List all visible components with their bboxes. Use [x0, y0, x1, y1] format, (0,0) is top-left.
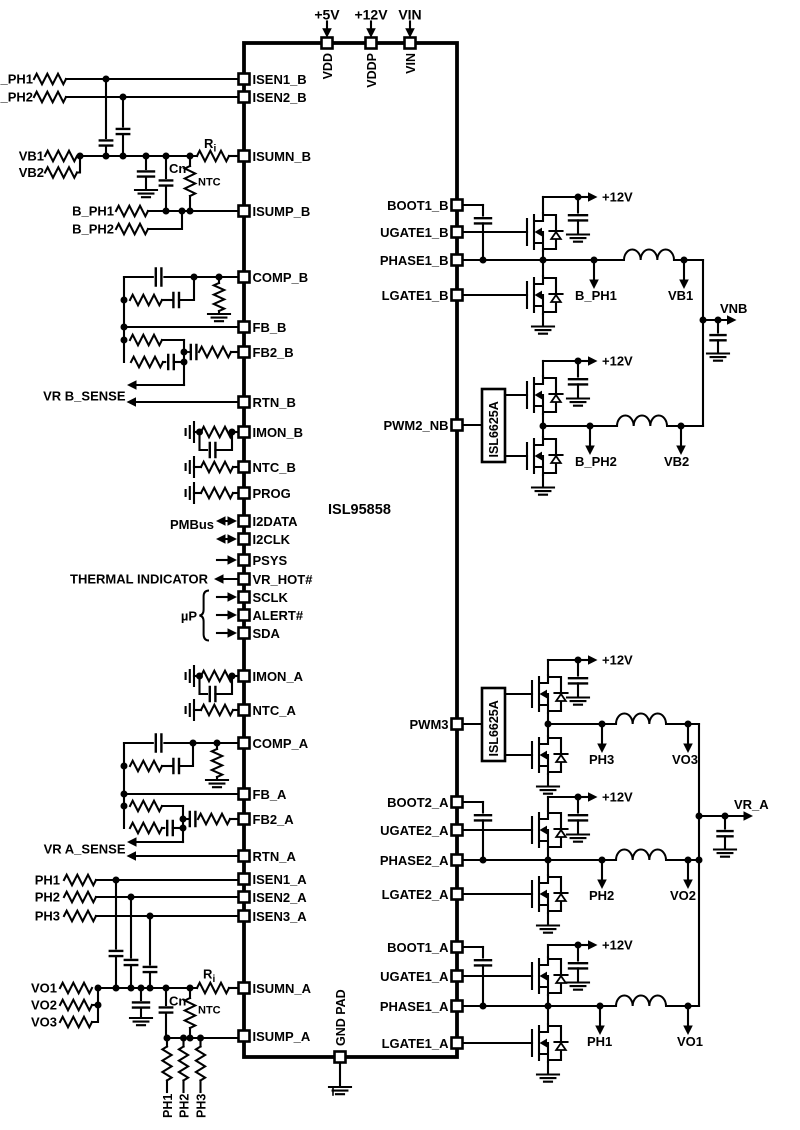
pin IMON_B — [239, 427, 250, 438]
wire ISUMP_B node — [148, 210, 238, 212]
ground symbol lower MOSFET phase2 A — [537, 926, 559, 933]
wire VNB cap lower — [717, 340, 719, 352]
junction PH2 branch — [599, 857, 606, 864]
junction PH1 branch — [597, 1003, 604, 1010]
wire decoupling cap upper — [577, 945, 579, 961]
wire +12V rail — [548, 659, 578, 661]
resistor FB2_A series — [198, 814, 230, 824]
svg-text:GND PAD: GND PAD — [334, 989, 348, 1046]
junction VO3 branch — [685, 721, 692, 728]
wire bootstrap lower — [482, 820, 484, 860]
svg-text:NTC_A: NTC_A — [253, 703, 297, 718]
svg-text:VR B_SENSE: VR B_SENSE — [43, 389, 126, 404]
svg-text:NTC: NTC — [198, 177, 221, 189]
arrowhead into VDDP — [366, 28, 376, 38]
ground symbol VNB cap — [707, 354, 729, 361]
wire inductor to VR_A bus — [668, 859, 699, 861]
transistor upper MOSFET phase2 B — [527, 376, 563, 414]
junction VB1 branch — [681, 257, 688, 264]
pin SCLK — [239, 592, 250, 603]
arrowhead VB2 — [676, 446, 686, 456]
junction IMON_B left — [196, 429, 203, 436]
svg-text:SCLK: SCLK — [253, 590, 289, 605]
junction +12V rail — [575, 194, 582, 201]
arrow PSYS input — [217, 559, 230, 561]
wire +12V rail — [543, 360, 578, 362]
ground symbol GND PAD — [329, 1087, 351, 1094]
wire decoupling cap lower — [577, 820, 579, 833]
wire drain to phase node — [547, 860, 549, 875]
wire B_PH1 branch — [593, 260, 595, 280]
wire B_PH2 join — [148, 211, 182, 229]
resistor ISUMP_A PH3 — [196, 1047, 205, 1081]
junction IMON_A left — [196, 673, 203, 680]
wire drain to phase node — [542, 260, 544, 276]
wire COMP_B row right — [164, 276, 238, 278]
pin RTN_B — [239, 397, 250, 408]
wire RTN_A sense — [135, 855, 238, 857]
svg-text:PHASE1_B: PHASE1_B — [380, 253, 449, 268]
svg-text:_PH1: _PH1 — [0, 72, 33, 87]
svg-text:R: R — [204, 136, 214, 151]
wire drain to +12V rail — [547, 797, 549, 811]
pin VDD — [322, 38, 333, 49]
ground symbol COMP_A — [206, 780, 228, 787]
wire IMON_B to pin — [233, 431, 238, 433]
wire PH1 cap branch lower — [115, 956, 117, 988]
junction phase3 A node — [545, 721, 552, 728]
wire source to phase node — [547, 995, 549, 1006]
pin ISEN2_A — [239, 892, 250, 903]
wire IMON_B cap left — [200, 432, 208, 450]
wire driver UGATE (B2) — [505, 394, 527, 396]
svg-text:+12V: +12V — [354, 7, 388, 23]
double arrow I2CLK — [216, 534, 237, 544]
wire decoupling cap lower — [577, 384, 579, 397]
junction on ISUMN_A node — [147, 985, 154, 992]
brace uP group — [199, 591, 209, 641]
decoupling capacitor +12V — [569, 215, 587, 220]
pin PROG — [239, 488, 250, 499]
wire cap to ground lower (A) — [140, 1008, 142, 1016]
junction on ISUMN_B node — [187, 153, 194, 160]
svg-text:PH1: PH1 — [35, 873, 60, 888]
svg-text:ISEN2_B: ISEN2_B — [253, 90, 307, 105]
svg-text:BOOT1_B: BOOT1_B — [387, 198, 448, 213]
wire PH3 to ISEN3_A — [96, 915, 238, 917]
pin PHASE2_A — [452, 855, 463, 866]
svg-text:PH3: PH3 — [195, 1094, 209, 1118]
wire IMON_A cap right — [215, 676, 232, 694]
wire ISUMN_A summing node — [98, 987, 197, 989]
svg-text:LGATE1_B: LGATE1_B — [382, 288, 449, 303]
wire IMON_A to pin — [233, 675, 238, 677]
transistor lower MOSFET phase1 B — [527, 276, 563, 314]
pin FB_A — [239, 789, 250, 800]
wire UGATE2_A to gate — [463, 829, 532, 831]
capacitor compensation RC (A) — [173, 759, 179, 773]
wire B_PH2 branch — [589, 426, 591, 446]
ground symbol +12V decoupling — [567, 698, 589, 705]
wire remote sense branch (B) — [136, 384, 184, 386]
junction VNB cap — [715, 317, 722, 324]
wire NTC_A to pin — [233, 709, 238, 711]
wire PHASE2_A node — [463, 859, 616, 861]
svg-text:ISUMP_A: ISUMP_A — [253, 1029, 311, 1044]
junction droop lower row (B) — [181, 359, 188, 366]
ground symbol VR_A cap — [714, 850, 736, 857]
pin GND PAD — [335, 1052, 346, 1063]
wire cap to ground upper (B) — [145, 156, 147, 169]
arrowhead RTN_A sense — [127, 851, 137, 861]
pin SDA — [239, 628, 250, 639]
inductor L phase3 A — [616, 714, 666, 725]
svg-text:THERMAL INDICATOR: THERMAL INDICATOR — [70, 572, 209, 587]
junction FB2_A branch — [180, 816, 187, 823]
wire resistor PH1 lead — [166, 1081, 168, 1093]
wire decoupling cap upper — [577, 197, 579, 213]
wire drain to phase node — [547, 1006, 549, 1024]
resistor COMP_A to ground — [212, 749, 222, 777]
svg-text:VR_A: VR_A — [734, 797, 769, 812]
ground symbol NTC_B — [186, 457, 194, 477]
wire +12V rail — [543, 196, 578, 198]
pin LGATE1_A — [452, 1038, 463, 1049]
resistor VO1 sense — [60, 983, 92, 993]
junction PH3 branch — [599, 721, 606, 728]
capacitor COMP_B feedback — [156, 269, 162, 286]
junction phase1 A node — [545, 1003, 552, 1010]
junction B_PH2 at ISUMP_B — [179, 208, 186, 215]
pin BOOT1_A — [452, 942, 463, 953]
svg-text:PH2: PH2 — [178, 1094, 192, 1118]
wire source to ground — [547, 774, 549, 785]
junction rail RC row (A) — [121, 763, 128, 770]
wire source to ground — [547, 1062, 549, 1073]
wire resistor PH2 lead — [182, 1081, 184, 1093]
junction on ISUMN_A node — [113, 985, 120, 992]
wire source to ground — [547, 913, 549, 924]
wire source to phase node — [547, 849, 549, 860]
svg-text:FB2_B: FB2_B — [253, 345, 294, 360]
junction R PH3 at ISUMP_A — [197, 1035, 204, 1042]
junction VB2 branch — [678, 423, 685, 430]
capacitor Cn (A) — [160, 1007, 172, 1012]
wire VB2 branch — [680, 426, 682, 446]
junction COMP_B resistor branch — [216, 274, 223, 281]
svg-text:VO2: VO2 — [670, 888, 696, 903]
junction COMP_A RC branch — [190, 740, 197, 747]
wire PH2 cap branch lower — [130, 965, 132, 988]
svg-text:ISL95858: ISL95858 — [328, 502, 391, 518]
svg-text:+12V: +12V — [602, 653, 633, 668]
wire PH2 to ISEN2_A — [96, 896, 238, 898]
svg-text:B_PH2: B_PH2 — [575, 454, 617, 469]
junction _PH2 node — [120, 94, 127, 101]
wire _PH1 to ISEN1_B — [66, 78, 238, 80]
svg-text:PHASE2_A: PHASE2_A — [380, 853, 449, 868]
wire PWM3 to driver — [463, 723, 482, 725]
svg-text:NTC_B: NTC_B — [253, 460, 296, 475]
junction bootstrap at phase — [480, 1003, 487, 1010]
capacitor ISUMN_A to ground — [133, 1002, 149, 1007]
ground symbol +12V decoupling — [567, 983, 589, 990]
junction COMP_A resistor branch — [214, 740, 221, 747]
wire NTC_B to pin — [233, 466, 238, 468]
wire NTC upper (B) — [189, 156, 191, 166]
wire decoupling cap lower — [577, 220, 579, 233]
arrow VR_HOT# output — [222, 578, 237, 580]
ground symbol lower MOSFET phase2 B — [532, 488, 554, 495]
pin LGATE1_B — [452, 290, 463, 301]
ground symbol +12V decoupling — [567, 399, 589, 406]
wire LGATE1_B to gate — [463, 294, 527, 296]
pin BOOT2_A — [452, 797, 463, 808]
wire cap to ground upper (A) — [140, 988, 142, 1000]
capacitor ISEN2_A — [125, 960, 137, 965]
wire bootstrap upper — [482, 205, 484, 216]
svg-text:ISEN2_A: ISEN2_A — [253, 890, 308, 905]
wire decoupling cap upper — [577, 660, 579, 676]
resistor FB2_B series — [199, 347, 231, 357]
resistor IMON_B — [201, 427, 233, 437]
wire COMP_A row right — [164, 742, 238, 744]
wire +12V rail — [548, 796, 578, 798]
arrowhead +12V — [588, 655, 598, 665]
svg-text:LGATE2_A: LGATE2_A — [382, 887, 450, 902]
wire FB_A row — [124, 793, 238, 795]
arrowhead VO3 — [683, 744, 693, 754]
svg-text:IMON_A: IMON_A — [253, 669, 304, 684]
wire inductor to VR_A bus — [668, 723, 699, 725]
ground symbol lower MOSFET phase1 B — [532, 327, 554, 334]
svg-text:COMP_A: COMP_A — [253, 736, 309, 751]
svg-text:FB_A: FB_A — [253, 787, 288, 802]
wire VB1 branch — [683, 260, 685, 280]
resistor ISUMP_B from B_PH1 — [116, 206, 148, 216]
wire FB2_B to pin — [231, 351, 238, 353]
wire IMON_A cap left — [200, 676, 208, 694]
resistor ISEN2_A filter — [64, 892, 96, 902]
transistor upper MOSFET phase2 A — [532, 811, 568, 849]
junction on ISUMN_B node — [120, 153, 127, 160]
pin UGATE1_A — [452, 971, 463, 982]
wire RTN_B sense — [135, 401, 238, 403]
wire ISUMP_A to resistor PH1 — [166, 1038, 168, 1047]
junction VB1/VB2 — [77, 153, 84, 160]
svg-text:+12V: +12V — [602, 190, 633, 205]
wire Cn lower (B) — [165, 186, 167, 211]
svg-text:PWM2_NB: PWM2_NB — [383, 418, 448, 433]
svg-text:VB1: VB1 — [19, 149, 44, 164]
wire PH1 branch — [599, 1006, 601, 1026]
resistor VO2 sense — [60, 1000, 92, 1010]
wire VO1 branch — [687, 1006, 689, 1026]
junction NTC at ISUMP_B — [187, 208, 194, 215]
wire left rail compensation (A) — [123, 743, 125, 828]
resistor compensation RC (A) — [130, 761, 162, 771]
svg-text:B_PH1: B_PH1 — [72, 204, 114, 219]
pin ISEN1_A — [239, 874, 250, 885]
arrowhead into VIN — [405, 28, 415, 38]
pin PHASE1_A — [452, 1001, 463, 1012]
wire FB_B row — [124, 326, 238, 328]
wire resistor PH3 lead — [199, 1081, 201, 1093]
wire Cn upper (A) — [165, 988, 167, 1005]
arrowhead VNB — [727, 315, 737, 325]
pin VIN — [405, 38, 416, 49]
resistor droop lower (B) — [131, 357, 163, 367]
junction VO1 branch — [685, 1003, 692, 1010]
resistor Ri (B) — [197, 151, 229, 161]
svg-text:PH3: PH3 — [35, 909, 60, 924]
wire droop lower to vertical (A) — [173, 827, 183, 829]
arrowhead PH2 — [597, 880, 607, 890]
capacitor FB2_A series — [190, 812, 196, 826]
decoupling capacitor +12V — [569, 963, 587, 968]
wire ISUMP_A node — [166, 1037, 238, 1039]
wire UGATE1_B to gate — [463, 231, 527, 233]
svg-text:VIN: VIN — [404, 53, 418, 74]
wire NTC upper (A) — [189, 988, 191, 998]
svg-text:ALERT#: ALERT# — [253, 608, 304, 623]
wire to vertical resistor (B) — [218, 277, 220, 283]
pin ISEN2_B — [239, 92, 250, 103]
arrowhead PH1 — [595, 1026, 605, 1036]
svg-text:RTN_A: RTN_A — [253, 849, 297, 864]
wire VO2/VO3 join — [92, 988, 98, 1022]
junction droop lower row (A) — [180, 825, 187, 832]
wire source to ground — [542, 314, 544, 325]
wire drain to +12V rail — [542, 197, 544, 213]
pin FB2_A — [239, 814, 250, 825]
resistor NTC_B network — [201, 462, 233, 472]
wire PWM2_NB to driver — [463, 424, 482, 426]
pin VR_HOT# — [239, 574, 250, 585]
wire droop upper row (B) — [162, 339, 184, 341]
wire source to ground — [542, 475, 544, 486]
wire driver UGATE (A3) — [505, 693, 532, 695]
pin I2DATA — [239, 516, 250, 527]
pin ISEN3_A — [239, 911, 250, 922]
pin COMP_B — [239, 272, 250, 283]
capacitor ISUMN_B to ground — [138, 171, 154, 176]
svg-text:i: i — [214, 144, 217, 155]
ground symbol NTC_A — [186, 700, 194, 720]
svg-text:+12V: +12V — [602, 354, 633, 369]
junction phase1 B node — [540, 257, 547, 264]
svg-text:UGATE1_B: UGATE1_B — [380, 225, 448, 240]
wire VNB cap upper — [717, 320, 719, 333]
wire droop vertical (A) — [182, 806, 184, 842]
svg-text:VIN: VIN — [398, 7, 421, 23]
svg-text:VR_HOT#: VR_HOT# — [253, 572, 314, 587]
wire NTC lower (B) — [189, 196, 191, 211]
wire source to phase node — [542, 251, 544, 260]
junction B_PH1 branch — [591, 257, 598, 264]
resistor VB1 sense — [45, 151, 77, 161]
pin FB_B — [239, 322, 250, 333]
wire VNB node — [703, 319, 727, 321]
wire _PH2 cap branch upper — [122, 97, 124, 127]
junction VO2 — [95, 1002, 102, 1009]
wire COMP_B row left — [124, 276, 153, 278]
junction +12V rail — [575, 942, 582, 949]
decoupling capacitor +12V — [569, 678, 587, 683]
svg-text:COMP_B: COMP_B — [253, 270, 309, 285]
resistor COMP_B to ground — [214, 283, 224, 311]
wire BOOT pin — [463, 204, 483, 206]
pin PWM3 — [452, 719, 463, 730]
wire bootstrap upper — [482, 802, 484, 813]
NTC thermistor (A) — [185, 998, 195, 1028]
inductor L phase2 B — [617, 416, 667, 427]
arrowhead VB1 — [679, 280, 689, 290]
arrowhead +12V — [588, 356, 598, 366]
NTC thermistor (B) — [185, 166, 195, 196]
transistor lower MOSFET phase1 A — [532, 1024, 568, 1062]
pin ISUMP_B — [239, 206, 250, 217]
wire drain to phase node — [542, 426, 544, 437]
wire RC row (B) — [162, 299, 173, 301]
wire Ri to ISUMN_A pin — [229, 987, 238, 989]
wire drain to +12V rail — [547, 660, 549, 675]
capacitor compensation RC (B) — [173, 293, 179, 307]
junction +12V rail — [575, 358, 582, 365]
wire GND PAD to ground — [339, 1063, 341, 1086]
svg-text:PROG: PROG — [253, 486, 291, 501]
wire source to phase node — [542, 414, 544, 426]
resistor droop upper (B) — [130, 335, 162, 345]
pin FB2_B — [239, 347, 250, 358]
arrowhead PH3 — [597, 744, 607, 754]
inductor L phase1 A — [616, 996, 666, 1007]
pin BOOT1_B — [452, 200, 463, 211]
wire Cn upper (B) — [165, 156, 167, 178]
wire COMP_A row left — [124, 742, 153, 744]
wire source to phase node — [547, 713, 549, 724]
svg-text:PHASE1_A: PHASE1_A — [380, 999, 449, 1014]
wire +12V supply — [370, 22, 372, 30]
junction rail FB_A row — [121, 791, 128, 798]
wire cap to ground lower (B) — [145, 177, 147, 188]
wire drain to phase node — [547, 724, 549, 736]
svg-text:I2CLK: I2CLK — [253, 532, 291, 547]
svg-text:PH1: PH1 — [161, 1094, 175, 1118]
junction PH3 node — [147, 913, 154, 920]
arrowhead +12V — [588, 792, 598, 802]
arrowhead +12V — [588, 192, 598, 202]
wire Ri to ISUMN_B pin — [229, 155, 238, 157]
pin UGATE1_B — [452, 227, 463, 238]
wire VB2 join — [77, 156, 80, 173]
wire UGATE1_A to gate — [463, 975, 532, 977]
capacitor IMON_A — [210, 687, 216, 701]
arrowhead RTN_B sense — [127, 397, 137, 407]
svg-text:+12V: +12V — [602, 938, 633, 953]
junction PH2 node — [128, 894, 135, 901]
ground tick mark — [332, 1089, 334, 1096]
svg-text:ISUMN_B: ISUMN_B — [253, 149, 312, 164]
pin PSYS — [239, 555, 250, 566]
ground symbol +12V decoupling — [567, 235, 589, 242]
bootstrap capacitor — [475, 815, 491, 820]
junction bootstrap at phase — [480, 257, 487, 264]
arrow SCLK input — [217, 596, 230, 598]
svg-text:VO1: VO1 — [31, 981, 57, 996]
junction on ISUMN_A node — [128, 985, 135, 992]
resistor ISEN2_B filter — [34, 92, 66, 102]
